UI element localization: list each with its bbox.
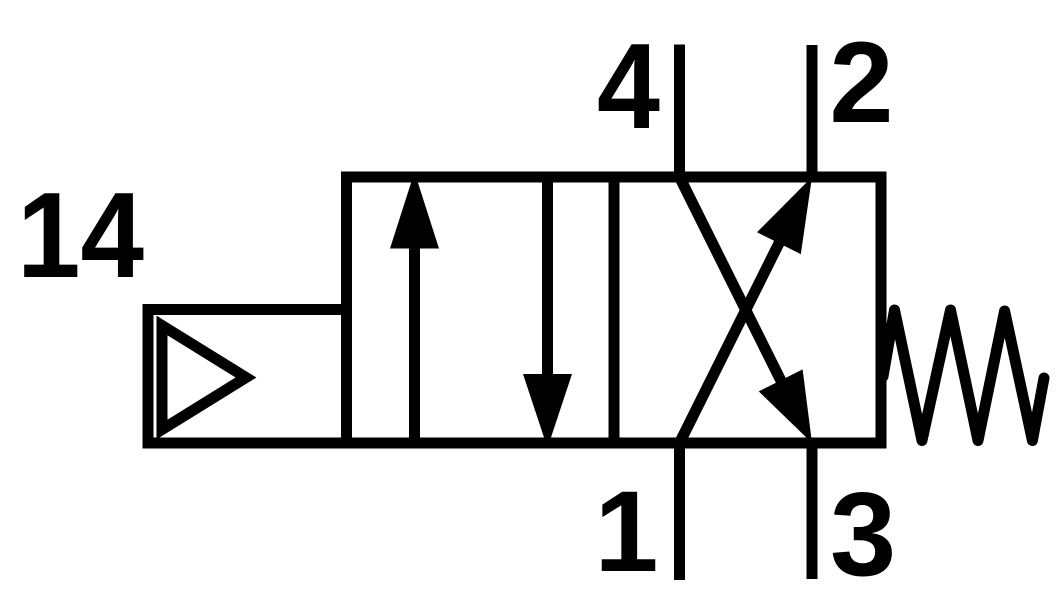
crossed flow line 4-to-3 bbox=[680, 177, 801, 419]
port 2 stub bbox=[807, 45, 818, 182]
svg-text:2: 2 bbox=[830, 19, 894, 147]
port 4 stub bbox=[674, 45, 685, 183]
svg-text:1: 1 bbox=[595, 468, 659, 596]
port 1 stub bbox=[674, 438, 685, 580]
arrow head 1-to-2 bbox=[757, 177, 812, 254]
up arrow head bbox=[390, 172, 439, 249]
pilot actuator box (port 14 side) bbox=[148, 310, 347, 444]
divider between positions bbox=[609, 172, 620, 448]
return spring bbox=[883, 310, 1044, 441]
svg-text:14: 14 bbox=[17, 167, 144, 303]
down arrow shaft (left position) bbox=[542, 172, 553, 395]
pilot triangle bbox=[162, 326, 246, 430]
down arrow head bbox=[523, 374, 572, 448]
port 3 stub bbox=[807, 438, 818, 579]
svg-text:3: 3 bbox=[830, 468, 896, 601]
crossed flow line 1-to-2 bbox=[680, 201, 801, 443]
up arrow shaft (left position) bbox=[409, 230, 420, 448]
valve body outline bbox=[347, 177, 882, 443]
svg-text:4: 4 bbox=[597, 18, 660, 154]
arrow head 4-to-3 bbox=[759, 369, 812, 443]
